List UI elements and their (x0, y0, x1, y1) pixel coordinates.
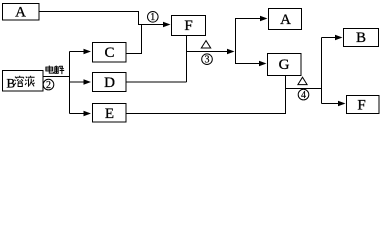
wire D output to junction (126, 81, 187, 83)
svg-text:F: F (184, 18, 192, 34)
wire B-solution to trunk (43, 76, 70, 78)
wire right riser (321, 38, 323, 104)
wire fork riser (236, 19, 264, 64)
wire A1 to F1 (via corner) (39, 12, 167, 25)
svg-text:A: A (280, 12, 291, 28)
wire trunk to C (70, 51, 88, 53)
box E (93, 104, 127, 123)
arrowhead into C (84, 49, 92, 54)
box G (268, 54, 302, 76)
arrowhead into A2 (260, 16, 268, 21)
label circled 2 (43, 79, 54, 90)
svg-text:4: 4 (301, 90, 306, 101)
arrowhead into E (84, 111, 92, 116)
wire reaction 4 line to riser (286, 88, 322, 90)
arrowhead into B2 (335, 35, 343, 40)
wire trunk vertical (69, 52, 71, 114)
hanzi rong (dissolve) (14, 76, 23, 87)
wire F1 down to D line (186, 36, 188, 83)
box F2 (347, 96, 380, 114)
wire E output long line up to G (126, 76, 286, 114)
svg-text:C: C (104, 45, 114, 61)
arrowhead into F2 (338, 101, 346, 106)
hanzi jie (decompose) (55, 66, 64, 74)
wire riser to B2 (322, 37, 339, 39)
arrowhead into D (84, 79, 92, 84)
box A2 (269, 9, 302, 30)
delta heat symbol over reaction 3 (201, 41, 210, 48)
svg-text:E: E (105, 106, 114, 122)
label circled 3 (202, 54, 213, 65)
wire trunk to D (70, 81, 88, 83)
hanzi dian (electric) (46, 66, 54, 74)
svg-text:F: F (357, 97, 365, 113)
svg-text:G: G (279, 57, 290, 73)
svg-text:B: B (356, 30, 366, 46)
arrowhead into G (259, 61, 267, 66)
box C (93, 43, 127, 63)
label circled 1 (148, 11, 159, 22)
arrowhead into fork junction (227, 49, 235, 54)
wire reaction 3 line to fork (187, 51, 232, 53)
box F1 (172, 16, 206, 36)
svg-text:1: 1 (150, 12, 155, 23)
svg-text:D: D (104, 75, 115, 91)
svg-text:A: A (15, 5, 26, 21)
svg-text:B: B (6, 76, 15, 91)
delta heat symbol over reaction 4 (298, 77, 307, 84)
wire trunk to E (70, 113, 88, 115)
arrowhead into F1 (163, 22, 171, 27)
svg-text:2: 2 (46, 80, 51, 91)
svg-text:3: 3 (205, 55, 210, 66)
box B2 (344, 29, 379, 47)
hanzi ye (liquid) (25, 76, 35, 87)
box D (93, 73, 127, 92)
label circled 4 (298, 89, 309, 100)
wire C output up to arrow line (126, 25, 142, 54)
wire riser to F2 (322, 103, 342, 105)
box A1 (3, 4, 40, 21)
box B-solution (3, 71, 44, 92)
